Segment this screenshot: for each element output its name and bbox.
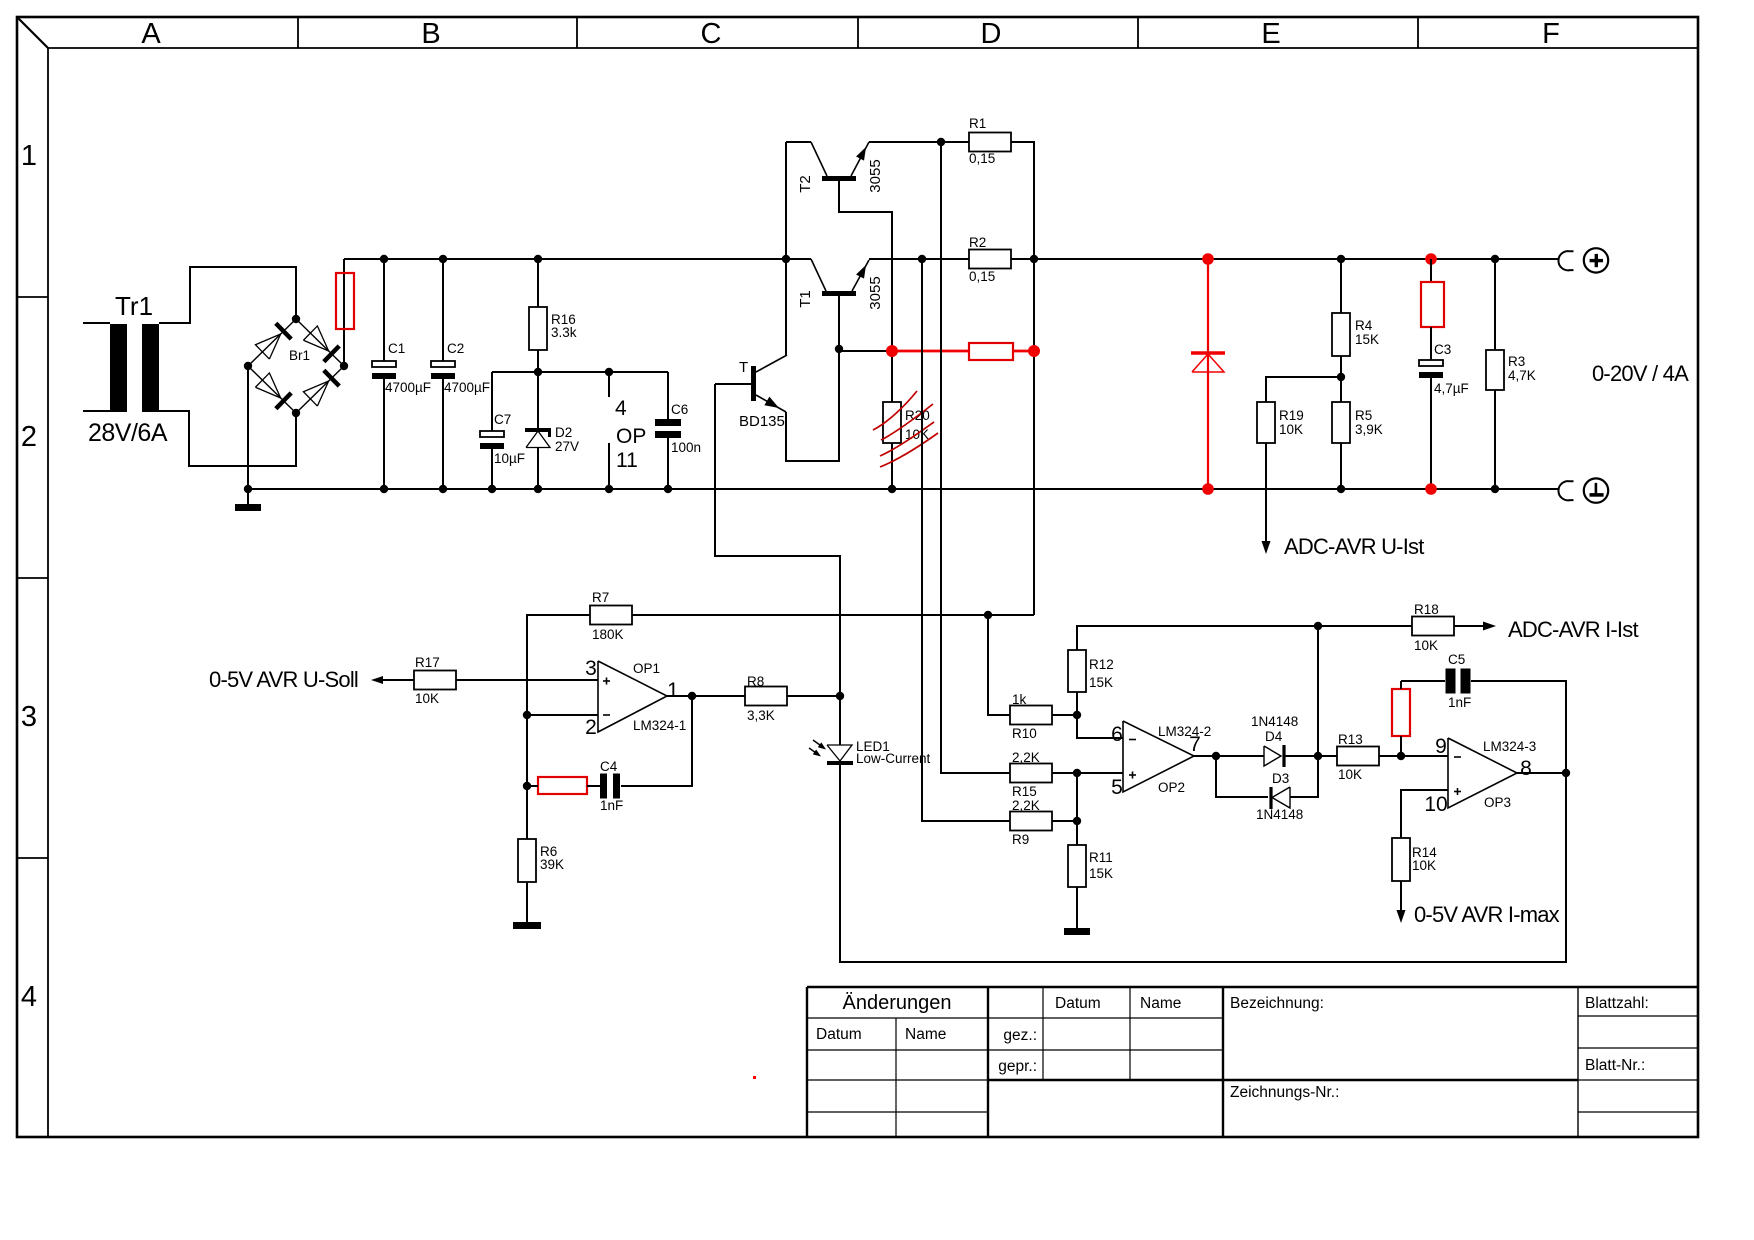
wire OP2 output (1194, 755, 1264, 757)
transistor T2 emitter arrow (856, 147, 866, 161)
svg-text:R10: R10 (1012, 726, 1037, 741)
wire R13 to OP3 minus node (1379, 755, 1448, 757)
fuse F1 (red) (336, 273, 354, 329)
bridge Br1 diode top-left (255, 334, 280, 359)
wire R12 rail (1077, 626, 1412, 650)
capacitor C3 (1419, 360, 1443, 366)
svg-text:OP2: OP2 (1158, 780, 1185, 795)
red junction at base node (886, 345, 898, 357)
red junction C3 bottom (1425, 483, 1437, 495)
svg-text:OP1: OP1 (633, 661, 660, 676)
wire R1 to output riser (1011, 142, 1034, 615)
wire LED1 cathode to OP3 output (840, 765, 1566, 962)
resistor R11 (1068, 845, 1086, 887)
red junction D1 top (1202, 253, 1214, 265)
transformer Tr1 primary winding bar (110, 324, 127, 412)
wire fuse vertical (343, 259, 345, 366)
wire C5 right to output (1471, 681, 1566, 773)
op-amp OP1 plus sign (603, 680, 610, 682)
resistor R3 top wire (1494, 259, 1496, 350)
op-amp OP3 triangle (1448, 738, 1517, 808)
svg-text:10µF: 10µF (494, 451, 525, 466)
wire sense node to R10 (988, 615, 1010, 715)
wire bridge minus to ground rail (247, 366, 249, 489)
wire primary bottom (83, 410, 110, 412)
capacitor C2 top wire (442, 259, 444, 361)
wire R18 to arrow (1454, 625, 1484, 627)
capacitor C6 top wire (667, 372, 669, 419)
svg-text:5: 5 (1111, 776, 1123, 799)
svg-text:10K: 10K (1412, 858, 1436, 873)
svg-text:D: D (981, 18, 1002, 50)
svg-text:Tr1: Tr1 (115, 291, 153, 321)
svg-text:R19: R19 (1279, 408, 1304, 423)
svg-text:0,15: 0,15 (969, 151, 995, 166)
junction C2 top (439, 255, 447, 263)
wire OP3 output (1517, 772, 1566, 774)
svg-text:R4: R4 (1355, 318, 1373, 333)
wire R6 to ground (526, 882, 528, 922)
wire sense riser from R2 left (922, 259, 1010, 821)
bridge Br1 diode bottom-left (255, 373, 280, 398)
wire R5 bottom (1340, 443, 1342, 489)
op-amp OP1 triangle (598, 661, 667, 732)
junction OP1 minus node (523, 711, 531, 719)
LED LED1 light arrows (813, 740, 824, 748)
svg-text:C6: C6 (671, 402, 688, 417)
svg-text:Br1: Br1 (289, 348, 310, 363)
svg-text:T: T (739, 359, 748, 376)
junction voltage divider tap (1337, 373, 1345, 381)
svg-text:T1: T1 (797, 290, 814, 308)
wire +V rail right section (after T1) (869, 258, 1559, 260)
wire C4 to OP1 output (621, 696, 692, 786)
junction aux rail at OP supply stub (605, 368, 613, 376)
red modification resistor (969, 343, 1013, 360)
frame inner border lines (48, 47, 1698, 49)
wire plus node to R11 node (1076, 773, 1078, 821)
LED LED1 triangle (827, 745, 852, 761)
junction OP pin11 at ground rail (605, 485, 613, 493)
svg-text:A: A (141, 18, 161, 50)
junction C2 bottom (439, 485, 447, 493)
svg-text:15K: 15K (1355, 332, 1379, 347)
junction OP2 plus node (1073, 769, 1081, 777)
transistor T2 base bar (822, 176, 856, 181)
wire R19 to ADC output (1265, 443, 1267, 542)
wire R10 to OP2 minus node (1052, 714, 1077, 716)
transistor T1 emitter lead (852, 260, 869, 291)
red compensation resistor (538, 777, 587, 794)
svg-text:10K: 10K (1338, 767, 1362, 782)
resistor R2 (969, 250, 1011, 269)
capacitor C7 top wire (491, 372, 493, 431)
svg-text:R9: R9 (1012, 832, 1029, 847)
junction bridge plus node (340, 362, 348, 370)
svg-text:T2: T2 (797, 175, 814, 193)
ADC-AVR I-Ist arrow (1483, 622, 1496, 631)
resistor R4 top wire (1340, 259, 1342, 313)
junction aux rail at D2 (534, 368, 542, 376)
red modification wire right (1013, 350, 1034, 353)
op-amp supply pin 11 stub (608, 443, 610, 489)
svg-text:39K: 39K (540, 857, 564, 872)
svg-text:10K: 10K (1414, 638, 1438, 653)
wire OP1 minus input (527, 714, 598, 716)
zener diode D2 top wire (537, 372, 539, 429)
svg-text:R3: R3 (1508, 354, 1525, 369)
resistor R18 (1412, 617, 1454, 636)
svg-text:10K: 10K (1279, 422, 1303, 437)
wire OP2 output to D3 (1216, 756, 1268, 797)
junction R3 top (1491, 255, 1499, 263)
svg-text:ADC-AVR I-Ist: ADC-AVR I-Ist (1508, 617, 1638, 642)
svg-text:R2: R2 (969, 235, 986, 250)
junction node B at R13 (1314, 752, 1322, 760)
junction R20 at ground rail (888, 485, 896, 493)
resistor R15 (1010, 764, 1052, 783)
capacitor C6 (655, 419, 681, 426)
svg-text:LM324-2: LM324-2 (1158, 724, 1211, 739)
svg-text:C7: C7 (494, 412, 511, 427)
svg-text:BD135: BD135 (739, 413, 785, 430)
junction bridge AC2 node (292, 409, 300, 417)
svg-text:2,2K: 2,2K (1012, 750, 1040, 765)
svg-text:3: 3 (21, 701, 37, 733)
wire R3 bottom (1494, 390, 1496, 489)
resistor R7 (590, 606, 632, 625)
title block thick vertical dividers (987, 987, 989, 1137)
stray red mark (753, 1076, 756, 1079)
wire feedback riser (527, 615, 590, 882)
capacitor C2 (431, 361, 455, 367)
svg-text:4700µF: 4700µF (385, 380, 431, 395)
svg-text:R13: R13 (1338, 732, 1363, 747)
transistor BD135 emitter arrow (764, 397, 779, 408)
transistor T2 emitter lead (851, 142, 869, 176)
wire aux rail (zener rail) (492, 371, 668, 373)
wire secondary bottom to bridge AC2 (159, 411, 296, 466)
svg-text:1nF: 1nF (600, 798, 623, 813)
capacitor C7 bottom wire (491, 449, 493, 489)
junction OP2 output node (1212, 752, 1220, 760)
junction OP2 minus node (1073, 711, 1081, 719)
transistor BD135 base wire (715, 383, 751, 385)
junction node B at rail (1314, 622, 1322, 630)
svg-text:4,7K: 4,7K (1508, 368, 1536, 383)
svg-text:R5: R5 (1355, 408, 1372, 423)
resistor R3 (1486, 350, 1504, 390)
frame corner diagonal (17, 17, 48, 48)
svg-text:Blatt-Nr.:: Blatt-Nr.: (1585, 1057, 1645, 1074)
svg-text:7: 7 (1189, 733, 1201, 756)
svg-text:Datum: Datum (816, 1026, 862, 1043)
op-amp OP3 minus sign (1454, 756, 1461, 758)
junction +V rail to collector riser (782, 255, 790, 263)
U-Soll arrow (371, 676, 383, 684)
LED LED1 cathode bar (827, 761, 853, 765)
junction OP3 output node (1562, 769, 1570, 777)
svg-text:3055: 3055 (867, 276, 884, 309)
svg-text:4,7µF: 4,7µF (1434, 381, 1469, 396)
junction +V rail at T1 emitter sense (918, 255, 926, 263)
wire R17 to OP1 plus input (456, 679, 598, 681)
resistor R12 (1068, 650, 1086, 692)
output terminal plus circle (1584, 248, 1608, 272)
wire T2 collector rail (786, 141, 811, 143)
wire sense riser from R1 left (941, 142, 1010, 773)
svg-text:Name: Name (1140, 995, 1181, 1012)
wire tap to R19 (1266, 377, 1341, 402)
svg-text:3: 3 (585, 657, 597, 680)
wire snubber to C3 (1430, 327, 1432, 360)
junction R9 R11 node (1073, 817, 1081, 825)
svg-text:gez.:: gez.: (1003, 1027, 1037, 1044)
junction R2 right at output riser (1030, 255, 1038, 263)
svg-text:C2: C2 (447, 341, 464, 356)
svg-text:R15: R15 (1012, 784, 1037, 799)
svg-text:3.3k: 3.3k (551, 325, 577, 340)
wire R11 to ground (1076, 887, 1078, 928)
frame row dividers (17, 296, 48, 298)
capacitor C4 (600, 774, 607, 799)
wire R15 to OP2 plus node (1052, 772, 1123, 774)
svg-text:8: 8 (1520, 757, 1532, 780)
transistor T2 collector lead (811, 142, 827, 176)
svg-text:9: 9 (1435, 735, 1447, 758)
svg-text:11: 11 (616, 449, 638, 472)
svg-text:R8: R8 (747, 674, 764, 689)
svg-text:180K: 180K (592, 627, 624, 642)
resistor R20 (883, 402, 901, 443)
svg-text:1: 1 (21, 140, 37, 172)
ground symbol at R11 (1064, 928, 1090, 935)
wire ground rail (248, 488, 1559, 490)
resistor R19 (1257, 402, 1275, 443)
capacitor C6 bottom wire (667, 438, 669, 489)
wire R16 bottom to aux rail (537, 350, 539, 372)
ADC-AVR U-Ist arrow (1262, 541, 1271, 554)
svg-text:gepr.:: gepr.: (998, 1058, 1037, 1075)
red junction C3 branch top (1425, 253, 1437, 265)
svg-text:C3: C3 (1434, 342, 1451, 357)
svg-text:1N4148: 1N4148 (1251, 714, 1298, 729)
svg-text:R12: R12 (1089, 657, 1114, 672)
transistor T1 emitter arrow (856, 265, 866, 279)
svg-text:Zeichnungs-Nr.:: Zeichnungs-Nr.: (1230, 1084, 1339, 1101)
svg-text:2: 2 (585, 716, 597, 739)
ground symbol at R6 (513, 922, 541, 929)
red protection diode D1 (1191, 351, 1225, 355)
capacitor C1 bottom wire (383, 379, 385, 489)
svg-text:LM324-1: LM324-1 (633, 718, 686, 733)
op-amp supply pin 4 stub (608, 372, 610, 397)
junction sense node at R10 (984, 611, 992, 619)
wire red resistor top stub (1400, 681, 1402, 689)
op-amp OP2 triangle (1123, 721, 1194, 792)
svg-text:B: B (421, 18, 440, 50)
junction R3 bottom (1491, 485, 1499, 493)
svg-text:Änderungen: Änderungen (843, 992, 952, 1014)
red junction D1 bottom (1202, 483, 1214, 495)
svg-text:Blattzahl:: Blattzahl: (1585, 995, 1649, 1012)
junction LED node (836, 692, 844, 700)
wire C5 left (1401, 680, 1445, 682)
resistor R14 (1392, 838, 1410, 881)
wire R11 top (1076, 821, 1078, 845)
svg-text:Name: Name (905, 1026, 946, 1043)
junction bridge AC1 node (292, 315, 300, 323)
transistor BD135 emitter lead (756, 395, 786, 412)
red snubber resistor above C3 (1421, 282, 1444, 327)
svg-text:D4: D4 (1265, 729, 1283, 744)
title block horizontal lines (807, 1017, 1223, 1019)
wire OP2 pin 6 input (1077, 715, 1123, 738)
svg-text:1nF: 1nF (1448, 695, 1471, 710)
resistor R10 (1010, 706, 1052, 725)
capacitor C5 (1446, 669, 1456, 694)
resistor R16 top wire (537, 259, 539, 307)
transistor T1 base bar (822, 291, 856, 296)
ground symbol main (247, 489, 249, 504)
op-amp OP2 minus sign (1129, 739, 1136, 741)
resistor R4 (1332, 313, 1350, 356)
svg-text:R11: R11 (1089, 850, 1113, 865)
red OP3 feedback resistor (1392, 689, 1410, 736)
wire T2 collector riser (785, 142, 787, 355)
capacitor C2 bottom wire (442, 379, 444, 489)
wire R20 top lead (891, 351, 893, 402)
resistor R16 (529, 307, 547, 350)
resistor R6 (518, 839, 536, 882)
wire T2 emitter to R1 (869, 141, 969, 143)
wire secondary top to bridge AC1 (159, 267, 296, 323)
svg-text:27V: 27V (555, 439, 579, 454)
svg-text:Bezeichnung:: Bezeichnung: (1230, 995, 1324, 1012)
wire R9 to R11 node (1052, 820, 1077, 822)
svg-text:6: 6 (1111, 723, 1123, 746)
transistor T1 collector lead (811, 259, 826, 291)
junction R16 top (534, 255, 542, 263)
red junction at output riser (1028, 345, 1040, 357)
svg-text:4700µF: 4700µF (444, 380, 490, 395)
transformer Tr1 secondary winding bar (142, 324, 159, 412)
wire T2 base down (839, 181, 892, 351)
wire R20 bottom lead (891, 443, 893, 489)
wire red resistor left stub (527, 785, 538, 787)
junction C7 bottom (488, 485, 496, 493)
frame column dividers (297, 17, 299, 48)
transistor BD135 collector lead (756, 355, 787, 372)
output terminal plus pin arc (1558, 251, 1573, 270)
junction C1 bottom (380, 485, 388, 493)
svg-text:C4: C4 (600, 759, 618, 774)
resistor R1 (969, 133, 1011, 152)
title block thin vertical dividers (895, 1018, 897, 1137)
op-amp OP1 minus sign (603, 714, 610, 716)
wire R8 to LED node (787, 695, 840, 697)
svg-text:1k: 1k (1012, 692, 1027, 707)
wire C3 branch upper (1430, 259, 1432, 282)
wire R7 to output sense node (632, 614, 1034, 616)
svg-text:1: 1 (667, 679, 679, 702)
svg-text:ADC-AVR U-Ist: ADC-AVR U-Ist (1284, 534, 1424, 559)
junction ground rail at bridge (244, 485, 252, 493)
wire primary top (83, 322, 110, 324)
bridge Br1 diode top-right (303, 326, 328, 351)
resistor R5 (1332, 402, 1350, 443)
junction OP3 minus node (1397, 752, 1405, 760)
junction T1 base node (835, 345, 843, 353)
wire T1 base down (838, 296, 840, 349)
svg-text:10K: 10K (415, 691, 439, 706)
svg-text:2,2K: 2,2K (1012, 798, 1040, 813)
wire OP1 output (667, 695, 745, 697)
wire BD135 emitter to base node (786, 349, 839, 461)
I-max arrow (1397, 910, 1406, 923)
output terminal ground circle (1584, 478, 1608, 502)
wire OP3 plus input (1401, 790, 1448, 838)
resistor R8 (745, 687, 787, 706)
wire LED1 anode (839, 696, 841, 745)
wire arrow to R17 (383, 679, 414, 681)
svg-text:4: 4 (21, 981, 37, 1013)
red modification wire left (892, 350, 969, 353)
wire red resistor bottom stub (1400, 736, 1402, 756)
junction R1 left sense node (937, 138, 945, 146)
svg-text:0,15: 0,15 (969, 269, 995, 284)
wire node B to rail (1317, 626, 1319, 756)
wire BD135 base to LED node (715, 384, 840, 696)
resistor R9 (1010, 812, 1052, 831)
svg-text:0-5V AVR U-Soll: 0-5V AVR U-Soll (209, 667, 358, 692)
svg-text:0-20V / 4A: 0-20V / 4A (1592, 361, 1689, 386)
output terminal ground pin arc (1558, 481, 1573, 500)
svg-text:LM324-3: LM324-3 (1483, 739, 1536, 754)
svg-text:R18: R18 (1414, 602, 1439, 617)
wire R14 to I-max arrow (1400, 881, 1402, 911)
wire node B to R13 (1318, 755, 1337, 757)
op-amp OP2 plus sign (1129, 774, 1136, 776)
svg-text:3,9K: 3,9K (1355, 422, 1383, 437)
svg-text:R1: R1 (969, 116, 986, 131)
wire red resistor to C4 (587, 785, 604, 787)
svg-text:C: C (701, 18, 722, 50)
op-amp OP3 plus sign (1454, 791, 1461, 793)
svg-text:C1: C1 (388, 341, 405, 356)
junction OP1 output at C4 feedback (688, 692, 696, 700)
svg-text:OP3: OP3 (1484, 795, 1511, 810)
svg-text:E: E (1261, 18, 1280, 50)
resistor R17 (414, 671, 456, 690)
title block outline (807, 986, 1698, 988)
svg-text:15K: 15K (1089, 675, 1113, 690)
svg-text:10: 10 (1424, 793, 1447, 816)
wire R4 to R5 (1340, 356, 1342, 402)
junction bridge minus node (244, 362, 252, 370)
resistor R13 (1337, 747, 1379, 766)
bridge rectifier Br1 frame wires (248, 319, 344, 413)
svg-text:Low-Current: Low-Current (856, 751, 931, 766)
svg-text:4: 4 (615, 397, 627, 420)
junction D2 bottom (534, 485, 542, 493)
svg-text:OP: OP (616, 425, 646, 448)
bridge Br1 diode bottom-right (303, 381, 328, 406)
zener diode D2 bottom wire (537, 448, 539, 490)
junction C6 bottom (664, 485, 672, 493)
wire C3 bottom (1430, 378, 1432, 489)
svg-text:F: F (1542, 18, 1560, 50)
